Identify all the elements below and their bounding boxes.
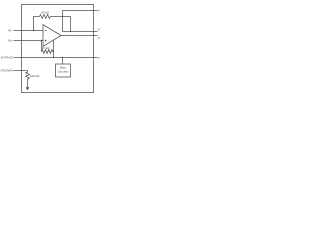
svg-text:VO: VO xyxy=(98,36,100,40)
wire vertical x62 node xyxy=(62,11,64,32)
wire BYPASS rail xyxy=(14,57,98,59)
svg-text:VD: VD xyxy=(98,56,100,60)
resistor R3 vertical zigzag xyxy=(26,71,30,81)
svg-text:VO: VO xyxy=(98,27,100,31)
wire SHUTDOWN stub xyxy=(14,70,28,72)
svg-text:Circuitry: Circuitry xyxy=(58,70,69,74)
op-amp minus sign xyxy=(45,29,47,32)
svg-text:IN+: IN+ xyxy=(8,39,13,43)
wire IN+ pin stub xyxy=(14,40,44,42)
wire R1 right to x70 xyxy=(50,16,70,18)
wire feedback vertical from IN- node xyxy=(34,17,40,31)
ground arrow xyxy=(26,87,30,90)
wire right pin y31.5 xyxy=(63,31,98,33)
IC outline box xyxy=(22,5,94,93)
svg-text:40 kΩ: 40 kΩ xyxy=(41,11,50,15)
wire vertical x41.5 from IN+ xyxy=(41,41,43,52)
svg-text:IN−: IN− xyxy=(8,29,13,33)
svg-text:SHUTDOWN: SHUTDOWN xyxy=(0,69,13,73)
op-amp U1 xyxy=(43,25,61,47)
wire R3 to ground xyxy=(27,81,29,88)
svg-text:40 kΩ: 40 kΩ xyxy=(42,46,51,50)
bias circuitry box xyxy=(56,64,71,77)
wire output y35.5 xyxy=(61,35,98,37)
svg-text:100 kΩ: 100 kΩ xyxy=(30,74,40,78)
resistor R2 zigzag xyxy=(42,50,54,54)
svg-text:BYPASS: BYPASS xyxy=(1,56,13,60)
wire vertical x70.5 xyxy=(70,17,72,32)
svg-text:VO: VO xyxy=(98,8,100,12)
wire bias box vertical xyxy=(62,58,64,65)
op-amp plus sign xyxy=(45,40,47,42)
wire top-right pin y10.5 xyxy=(63,10,98,12)
resistor R1 40k zigzag xyxy=(40,15,51,19)
junction dots xyxy=(33,16,71,58)
wire IN- pin stub xyxy=(14,30,44,32)
wire bias feed vertical x53.5 xyxy=(53,40,55,57)
